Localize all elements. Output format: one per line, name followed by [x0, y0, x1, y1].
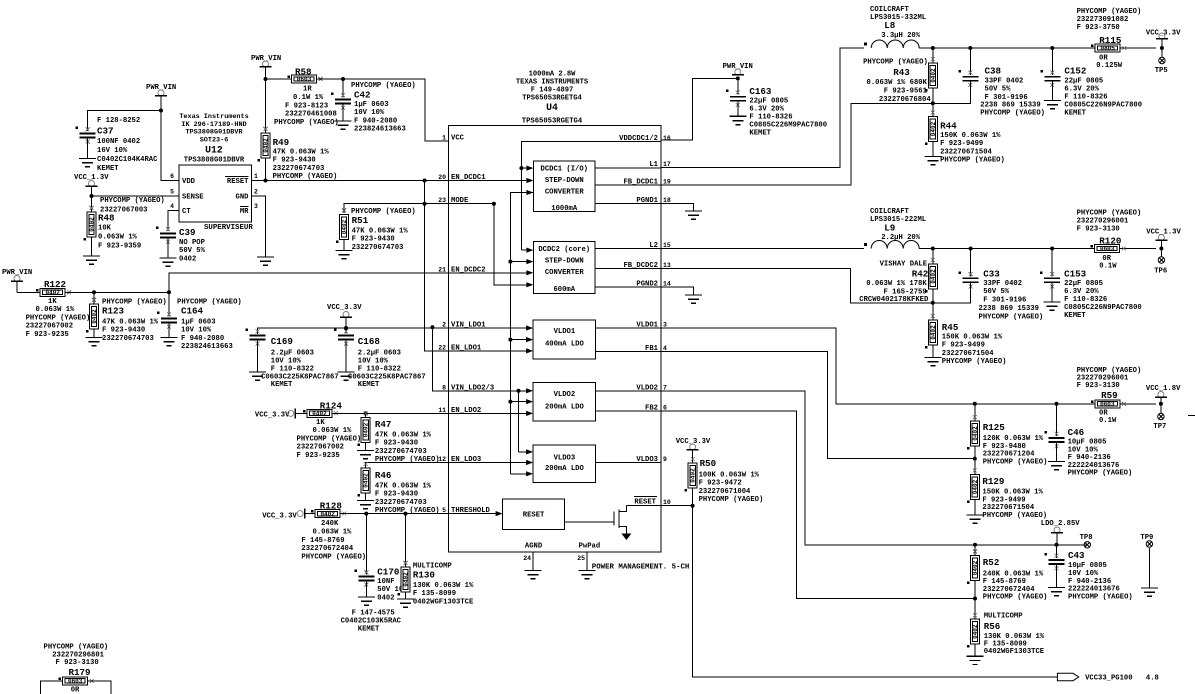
wire R46 to ground	[365, 493, 367, 501]
svg-text:232270674703: 232270674703	[375, 499, 427, 507]
wire r128 row	[305, 513, 316, 515]
svg-text:F 110-8326: F 110-8326	[1064, 94, 1107, 102]
label R123 values	[102, 319, 159, 343]
wire bias vertical	[510, 193, 533, 474]
svg-text:2.2μF 0603: 2.2μF 0603	[271, 350, 314, 358]
resistor R47	[358, 412, 371, 447]
svg-text:150K 0.063W 1%: 150K 0.063W 1%	[982, 489, 1043, 497]
wire R44 top	[932, 103, 934, 117]
arrow EN_LDO2	[448, 411, 533, 416]
wire PwPad stub	[586, 552, 588, 571]
svg-text:F 923-9561: F 923-9561	[884, 88, 928, 96]
power symbol VCC_3.3V r50	[687, 444, 699, 450]
junction R47 top	[364, 411, 368, 415]
svg-text:PHYCOMP (YAGEO): PHYCOMP (YAGEO)	[1077, 210, 1142, 218]
svg-text:0402: 0402	[363, 473, 370, 488]
border tick right edge	[1188, 415, 1195, 417]
label R124 values	[316, 419, 325, 427]
svg-text:VCC_3.3V: VCC_3.3V	[255, 412, 290, 420]
svg-text:C169: C169	[271, 336, 293, 347]
power symbol VCC_1.3V tp6	[1155, 235, 1167, 241]
resistor R124	[303, 409, 338, 417]
wire U12 CT to C39	[168, 211, 179, 232]
svg-text:PHYCOMP (YAGEO): PHYCOMP (YAGEO)	[699, 496, 764, 504]
junction R43 top	[931, 46, 935, 50]
svg-text:STEP-DOWN: STEP-DOWN	[545, 258, 584, 266]
wire PWR_VIN to U12 VDD	[161, 111, 179, 181]
wire EN chain vertical	[425, 181, 449, 351]
label R52 values	[983, 570, 1048, 601]
svg-text:PHYCOMP (YAGEO): PHYCOMP (YAGEO)	[100, 197, 165, 205]
svg-text:232270671004: 232270671004	[699, 488, 751, 496]
svg-text:PHYCOMP (YAGEO): PHYCOMP (YAGEO)	[940, 157, 1005, 165]
svg-text:21: 21	[438, 266, 446, 273]
svg-text:0.063W 1% 178K: 0.063W 1% 178K	[866, 280, 927, 288]
svg-text:1000mA 2.8W: 1000mA 2.8W	[529, 71, 577, 79]
svg-text:2: 2	[442, 322, 446, 329]
svg-text:47K 0.063W 1%: 47K 0.063W 1%	[352, 228, 409, 236]
svg-text:C163: C163	[749, 86, 772, 97]
svg-text:0.1W: 0.1W	[1099, 417, 1117, 425]
svg-text:50V 5%: 50V 5%	[179, 247, 206, 255]
svg-text:DCDC2 (core): DCDC2 (core)	[538, 246, 590, 254]
capacitor C153	[1040, 271, 1060, 288]
wire R56 lead	[974, 599, 976, 621]
svg-text:2.2μF 0603: 2.2μF 0603	[358, 350, 401, 358]
svg-text:R46: R46	[375, 470, 392, 481]
wire FB_DCDC2 net	[661, 268, 933, 303]
svg-text:PHYCOMP (YAGEO): PHYCOMP (YAGEO)	[1077, 8, 1142, 16]
block VLDO2	[533, 383, 596, 421]
label R45 values	[942, 334, 1007, 367]
wire R130 to ground	[405, 592, 407, 599]
svg-text:KEMET: KEMET	[97, 165, 119, 173]
arrow EN_DCDC2	[448, 270, 533, 275]
svg-text:PHYCOMP (YAGEO): PHYCOMP (YAGEO)	[863, 59, 928, 67]
resistor R122	[36, 288, 71, 296]
ground C39	[160, 258, 177, 266]
capacitor C168	[334, 329, 354, 346]
svg-text:F 923-9430: F 923-9430	[102, 327, 145, 335]
svg-text:0.063W 1%: 0.063W 1%	[36, 306, 76, 314]
junction RESET-R49	[264, 179, 268, 183]
svg-text:F 940-2080: F 940-2080	[181, 335, 224, 343]
svg-text:PWR_VIN: PWR_VIN	[251, 55, 281, 63]
svg-text:1R: 1R	[303, 86, 312, 94]
label R59 part	[1077, 367, 1142, 390]
wire L9 out rail	[919, 248, 1156, 250]
wire C164 to ground	[168, 323, 170, 338]
wire R42 top	[932, 249, 934, 265]
svg-text:0402: 0402	[312, 411, 327, 418]
svg-text:22: 22	[438, 344, 446, 351]
svg-text:9: 9	[663, 456, 667, 463]
svg-text:R50: R50	[700, 458, 717, 469]
ground C42	[335, 121, 352, 129]
wire AGND stub	[532, 552, 534, 571]
wire R122 to node	[65, 291, 169, 293]
svg-text:GND: GND	[236, 194, 250, 202]
wire C169 to ground	[257, 340, 259, 373]
wire R50 to RESET	[692, 488, 694, 506]
wire C38 to FBnode	[933, 81, 971, 104]
wire R51 to ground	[343, 240, 345, 251]
svg-text:10V 10%: 10V 10%	[354, 109, 385, 117]
svg-text:R123: R123	[102, 306, 125, 317]
svg-text:5: 5	[170, 189, 174, 196]
label R49 values	[273, 149, 338, 182]
svg-text:TP6: TP6	[1154, 268, 1167, 276]
svg-text:PHYCOMP (YAGEO): PHYCOMP (YAGEO)	[982, 512, 1047, 520]
svg-text:PHYCOMP (YAGEO): PHYCOMP (YAGEO)	[1068, 593, 1133, 601]
ground C152	[1044, 101, 1061, 109]
wire VLDO2 net	[661, 391, 1087, 545]
resistor R120	[1091, 245, 1126, 253]
U4 right pin labels	[619, 135, 671, 464]
wire r124 row	[295, 412, 307, 414]
svg-text:AGND: AGND	[525, 543, 543, 551]
svg-text:0402: 0402	[930, 269, 937, 284]
svg-text:0402: 0402	[930, 325, 937, 340]
svg-text:KEMET: KEMET	[358, 626, 380, 634]
svg-text:10NF: 10NF	[377, 578, 394, 586]
svg-text:C0805C226M9PAC7800: C0805C226M9PAC7800	[749, 122, 827, 130]
wire PWR_VIN stem	[160, 96, 162, 111]
junction C38 top	[968, 46, 972, 50]
wire C153 top lead	[1051, 249, 1053, 277]
svg-text:232273091082: 232273091082	[1077, 16, 1129, 24]
resistor R130	[398, 561, 411, 596]
svg-text:F 923-3130: F 923-3130	[1077, 226, 1120, 234]
svg-text:223824613663: 223824613663	[354, 126, 406, 134]
svg-text:KEMET: KEMET	[358, 381, 380, 389]
junction MODE tie	[423, 202, 427, 206]
svg-text:R130: R130	[413, 570, 435, 581]
svg-text:F 923-9499: F 923-9499	[942, 342, 985, 350]
wire C43 to ground	[1056, 564, 1058, 588]
wire R44 to ground	[932, 142, 934, 157]
wire tp6 stem	[1160, 240, 1162, 257]
ground C169	[249, 372, 266, 380]
U12 pin numbers	[170, 173, 258, 210]
wire ldo285 stem	[1056, 533, 1058, 545]
svg-text:F 110-8326: F 110-8326	[1064, 296, 1107, 304]
label C170 part	[352, 610, 395, 618]
wire PWR_VIN2 to R49	[265, 79, 267, 133]
wire MODE to R51	[344, 204, 425, 213]
wire C153 to ground	[1051, 282, 1053, 302]
wire C42 top	[342, 79, 344, 98]
svg-text:222224013676: 222224013676	[1068, 462, 1120, 470]
junction PWR_VIN node	[159, 109, 163, 113]
junction R52 top	[973, 543, 977, 547]
resistor R42	[925, 258, 938, 293]
svg-text:1: 1	[254, 173, 258, 180]
wire C168 top	[345, 328, 347, 334]
svg-text:R129: R129	[982, 476, 1004, 487]
svg-text:C0402C104K4RAC: C0402C104K4RAC	[97, 156, 158, 164]
svg-text:150K 0.063W 1%: 150K 0.063W 1%	[940, 132, 1001, 140]
svg-text:PHYCOMP (YAGEO): PHYCOMP (YAGEO)	[942, 358, 1007, 366]
label R130 values	[413, 582, 474, 606]
svg-text:TP8: TP8	[1080, 534, 1093, 542]
svg-text:232270672404: 232270672404	[301, 545, 353, 553]
svg-text:400mA LDO: 400mA LDO	[545, 341, 585, 349]
resistor R49	[258, 127, 271, 162]
svg-text:47K 0.063W 1%: 47K 0.063W 1%	[375, 483, 432, 491]
resistor R43	[925, 57, 938, 92]
svg-text:VDD: VDD	[182, 178, 196, 186]
svg-text:0603: 0603	[1100, 246, 1115, 253]
svg-text:10V 10%: 10V 10%	[1068, 446, 1099, 454]
svg-text:CT: CT	[182, 208, 191, 216]
svg-text:F 923-9235: F 923-9235	[26, 331, 69, 339]
wire SENSE	[92, 195, 180, 197]
svg-text:R45: R45	[942, 322, 959, 333]
label R59 values	[1099, 410, 1108, 418]
wire FB1 net	[661, 351, 975, 458]
svg-text:F 923-9430: F 923-9430	[352, 236, 395, 244]
svg-text:F 301-9196: F 301-9196	[983, 296, 1026, 304]
label R120 part	[1077, 210, 1142, 234]
wire R45 to ground	[932, 345, 934, 358]
svg-text:0.125W: 0.125W	[1096, 62, 1123, 70]
svg-text:MR: MR	[240, 208, 249, 216]
svg-text:L8: L8	[884, 20, 896, 31]
junction SENSE node	[90, 194, 94, 198]
capacitor C39	[156, 227, 176, 244]
capacitor C42	[331, 93, 351, 110]
svg-text:F 923-9235: F 923-9235	[297, 452, 340, 460]
resistor R58	[288, 75, 323, 83]
wire tp5 stem	[1161, 39, 1163, 58]
wire C46 to ground	[1056, 442, 1058, 462]
resistor R129	[967, 469, 980, 504]
resistor R123	[86, 298, 99, 333]
svg-text:1K: 1K	[48, 298, 57, 306]
junction FB2node	[931, 301, 935, 305]
svg-text:Texas Instruments: Texas Instruments	[179, 113, 248, 121]
inductor L9	[864, 241, 919, 249]
label R43 values	[867, 79, 932, 104]
svg-text:TP7: TP7	[1153, 423, 1166, 431]
resistor R50	[685, 457, 698, 492]
svg-text:2238 869 15339: 2238 869 15339	[979, 305, 1039, 313]
power symbol PWR_VIN 3	[11, 276, 23, 282]
label C153 values	[1064, 280, 1142, 320]
junction C164 top	[167, 290, 171, 294]
svg-text:C0805C226N9PAC7800: C0805C226N9PAC7800	[1064, 102, 1142, 110]
svg-text:10μF 0805: 10μF 0805	[1068, 439, 1107, 447]
wire C163 top	[737, 78, 739, 94]
svg-text:VLDO1: VLDO1	[554, 328, 576, 336]
label R124 part	[297, 436, 362, 460]
inductor L8	[864, 40, 919, 48]
arrow VIN_LDO1	[448, 325, 533, 330]
net label RESET internal	[634, 497, 657, 507]
svg-text:0402: 0402	[341, 219, 348, 234]
svg-text:100NF 0402: 100NF 0402	[97, 138, 140, 146]
svg-text:VCC_3.3V: VCC_3.3V	[676, 438, 711, 446]
testpoint TP6	[1158, 257, 1164, 263]
svg-text:F 128-8252: F 128-8252	[97, 117, 140, 125]
svg-text:1000mA: 1000mA	[551, 205, 578, 213]
resistor R51	[336, 209, 349, 244]
svg-text:PHYCOMP (YAGEO): PHYCOMP (YAGEO)	[301, 553, 366, 561]
svg-text:IK 296-17189-HND: IK 296-17189-HND	[181, 121, 246, 129]
block RESET	[503, 499, 565, 530]
wire R47 to ground	[365, 443, 367, 451]
svg-text:6.3V 20%: 6.3V 20%	[1064, 86, 1099, 94]
svg-text:CONVERTER: CONVERTER	[545, 269, 585, 277]
label U4 header	[516, 71, 589, 103]
svg-text:LPS3015-332ML: LPS3015-332ML	[870, 14, 926, 22]
svg-text:50V 5%: 50V 5%	[983, 288, 1010, 296]
power symbol PWR_VIN 4	[732, 69, 744, 75]
junction TP5	[1160, 46, 1164, 50]
svg-text:240K 0.063W 1%: 240K 0.063W 1%	[983, 570, 1044, 578]
svg-text:15: 15	[663, 242, 671, 249]
svg-text:C0805C226N9PAC7800: C0805C226N9PAC7800	[1064, 304, 1142, 312]
svg-text:0805: 0805	[1100, 45, 1115, 52]
wire PWR_VIN2 stem	[265, 67, 267, 80]
block VLDO1	[533, 320, 596, 359]
wire MODE line	[425, 203, 449, 205]
wire U12 GND to ground	[252, 196, 266, 257]
svg-text:F 940-2136: F 940-2136	[1068, 578, 1111, 586]
svg-text:R51: R51	[352, 215, 369, 226]
wire R48 to ground	[91, 237, 93, 256]
capacitor C37	[76, 127, 96, 144]
junction TP7	[1159, 402, 1163, 406]
resistor R46	[358, 462, 371, 497]
svg-text:R42: R42	[912, 269, 929, 280]
power symbol PWR_VIN 2	[260, 61, 272, 67]
svg-text:R179: R179	[69, 667, 91, 678]
svg-text:C33: C33	[983, 269, 1000, 280]
wire TP9 to ground	[1148, 548, 1150, 588]
svg-text:RESET: RESET	[523, 512, 545, 520]
capacitor C163	[726, 90, 746, 107]
capacitor C43	[1045, 553, 1065, 570]
wire VINLDO23 down	[518, 391, 520, 452]
label R58 part	[285, 103, 337, 119]
wire C170 to ground	[365, 581, 367, 598]
svg-text:PHYCOMP (YAGEO): PHYCOMP (YAGEO)	[1068, 470, 1133, 478]
svg-text:COILCRAFT: COILCRAFT	[870, 6, 910, 14]
label C39 values	[179, 239, 206, 263]
wire VIN_LDO1 line	[258, 328, 449, 334]
svg-text:F 923-3750: F 923-3750	[1077, 24, 1120, 32]
wire VINLDO23 vertical	[432, 328, 448, 391]
svg-text:0603: 0603	[68, 678, 83, 685]
label C42 values	[354, 101, 406, 134]
resistor R56	[967, 613, 980, 648]
wire R129 to ground	[974, 500, 976, 516]
svg-text:PHYCOMP (YAGEO): PHYCOMP (YAGEO)	[983, 458, 1048, 466]
svg-text:R125: R125	[983, 422, 1006, 433]
wire VINLDO23 internal	[448, 390, 518, 392]
svg-text:VCC_3.3V: VCC_3.3V	[327, 304, 362, 312]
wire mosfet drain to pin10	[626, 505, 661, 507]
svg-text:4.8: 4.8	[1146, 675, 1159, 683]
svg-text:PHYCOMP (YAGEO): PHYCOMP (YAGEO)	[297, 436, 362, 444]
svg-text:TPS65053RGETG4: TPS65053RGETG4	[522, 118, 583, 126]
svg-text:0402: 0402	[363, 422, 370, 437]
wire R42 to FBnode2	[932, 289, 934, 303]
svg-text:DCDC1 (I/O): DCDC1 (I/O)	[541, 166, 588, 174]
wire R125 lead	[974, 404, 976, 421]
junction PWR_VIN2	[264, 77, 268, 81]
label R46 values	[375, 483, 440, 516]
wire to C37	[88, 111, 161, 132]
junction C163	[736, 76, 740, 80]
ground PGND2	[685, 295, 702, 303]
junction C168	[344, 326, 348, 330]
svg-text:47K 0.063W 1%: 47K 0.063W 1%	[102, 319, 159, 327]
svg-text:232270674703: 232270674703	[273, 165, 325, 173]
label R129 values	[982, 489, 1047, 520]
arrow VIN VLDO2	[519, 388, 534, 393]
svg-text:47K 0.063W 1%: 47K 0.063W 1%	[273, 149, 330, 157]
label R58 values	[303, 86, 312, 94]
wire L2 to L9	[661, 248, 864, 250]
svg-text:150K 0.063W 1%: 150K 0.063W 1%	[942, 334, 1003, 342]
ground R46	[357, 501, 374, 509]
svg-text:22μF 0805: 22μF 0805	[1064, 78, 1103, 86]
svg-text:23: 23	[438, 197, 446, 204]
svg-text:VCC33_PG100: VCC33_PG100	[1085, 675, 1132, 683]
svg-text:0.063W 1% 680K: 0.063W 1% 680K	[867, 79, 928, 87]
label R128 values	[321, 520, 339, 528]
svg-text:F 110-8322: F 110-8322	[358, 366, 401, 374]
svg-text:F 145-8769: F 145-8769	[983, 578, 1026, 586]
svg-text:F 923-9480: F 923-9480	[983, 443, 1026, 451]
svg-text:0402: 0402	[89, 217, 96, 232]
svg-text:20: 20	[438, 174, 446, 181]
junction R42 top	[931, 247, 935, 251]
label R179 part2	[52, 651, 104, 659]
ground R130	[397, 599, 414, 607]
svg-text:C43: C43	[1068, 550, 1085, 561]
svg-text:0402: 0402	[930, 121, 937, 136]
svg-text:KEMET: KEMET	[271, 381, 293, 389]
svg-text:232270671204: 232270671204	[983, 451, 1035, 459]
svg-text:LDO_2.85V: LDO_2.85V	[1041, 520, 1081, 528]
svg-text:120K 0.063W 1%: 120K 0.063W 1%	[983, 435, 1044, 443]
label R56 values	[984, 633, 1045, 656]
block DCDC1	[533, 161, 595, 213]
wire R129 lead	[974, 459, 976, 475]
wire node to EN_DCDC2	[169, 273, 448, 293]
wire R123 to ground	[93, 329, 95, 338]
capacitor C169	[246, 329, 266, 346]
U4 left pin labels	[438, 135, 494, 516]
capacitor C46	[1045, 431, 1065, 448]
label R124 more	[313, 427, 353, 435]
svg-text:CONVERTER: CONVERTER	[545, 189, 585, 197]
svg-text:3: 3	[663, 322, 667, 329]
svg-text:232270461008: 232270461008	[285, 111, 337, 119]
arrow bias VLDO2	[510, 399, 533, 404]
svg-text:PHYCOMP (YAGEO): PHYCOMP (YAGEO)	[26, 315, 91, 323]
label R58 more	[293, 94, 324, 102]
svg-text:C42: C42	[354, 90, 371, 101]
svg-text:2: 2	[254, 189, 258, 196]
resistor R44	[925, 111, 938, 146]
svg-text:TP5: TP5	[1155, 67, 1168, 75]
junction C153 top	[1050, 247, 1054, 251]
